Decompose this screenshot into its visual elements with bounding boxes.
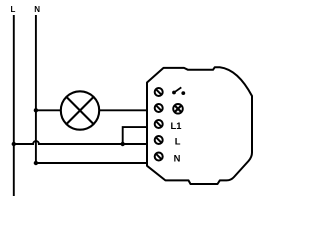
svg-text:L1: L1 [171,120,182,131]
svg-text:N: N [34,5,40,14]
svg-text:N: N [174,152,181,163]
svg-text:L: L [11,5,16,14]
svg-text:L: L [175,136,181,147]
